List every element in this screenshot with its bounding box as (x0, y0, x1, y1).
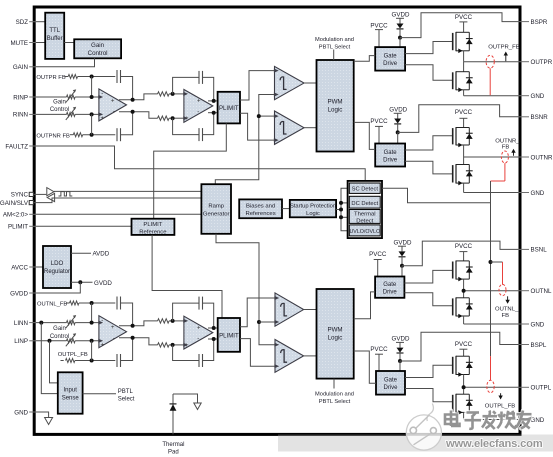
sense ellipse OUTPL (487, 380, 494, 392)
output wire (channel 1) (464, 61, 519, 63)
output wire (channel 3) (464, 290, 519, 292)
wire gate drive to low-side gate (channel 4) (405, 389, 453, 402)
svg-text:AVDD: AVDD (93, 251, 110, 258)
second stage feedback capacitor bottom (left) (173, 339, 214, 367)
pin OUTPR (519, 59, 553, 66)
svg-text:PBTL Select: PBTL Select (319, 44, 351, 50)
svg-text:OUTNL_: OUTNL_ (495, 306, 519, 312)
node RINP input (90, 75, 94, 79)
variable gain resistor RINN (67, 112, 76, 116)
ground rail wire (channel 3) (464, 323, 519, 325)
op-amp input stage left channel (99, 316, 127, 348)
PLIMIT block (left channel) (218, 318, 240, 352)
output sense bus wire (490, 181, 492, 356)
svg-text:www.elecfans.com: www.elecfans.com (445, 438, 543, 450)
svg-text:SYNC: SYNC (11, 192, 29, 199)
comparator 1 (right channel P) (275, 66, 305, 99)
bootstrap wire to BS pin (channel 1) (400, 13, 519, 38)
wire PLIMIT Reference to lower PLIMIT block (152, 235, 222, 318)
wire AVCC to LDO (36, 266, 43, 268)
wire low FET source to ground rail (channel 3) (463, 316, 465, 324)
GVDD diode channel 3 (394, 239, 412, 256)
GVDD diode channel 4 (392, 336, 410, 353)
pin MUTE (10, 40, 35, 47)
svg-text:-: - (113, 336, 115, 342)
Gate Drive block (channel 1) (375, 47, 405, 71)
label Gain Control (input attenuator bottom) (50, 326, 69, 340)
wire op-amp output bottom (left ch) (119, 338, 158, 345)
wire ramp to comparators 1-2 (215, 95, 274, 185)
wire op-amp output top (left ch) (119, 321, 158, 326)
wire gate drive to low-side gate (channel 2) (405, 161, 453, 174)
wire resistor to node (left bottom) (169, 344, 184, 346)
wire RINP to op-amp (75, 96, 99, 98)
svg-text:OUTPNR FB: OUTPNR FB (36, 133, 70, 139)
svg-text:SDZ: SDZ (16, 19, 29, 26)
pin GND (14, 409, 35, 416)
node output bottom (left ch) (131, 336, 135, 340)
high-side MOSFET (channel 4) (453, 356, 473, 377)
feedback arrow OUTPL_FB (500, 393, 502, 396)
watermark logo circle (406, 404, 441, 451)
wire PVCC to gate drive (channel 2) (378, 126, 380, 143)
svg-text:Gain: Gain (91, 42, 105, 49)
svg-text:Control: Control (88, 50, 108, 57)
svg-text:RINP: RINP (13, 94, 28, 101)
svg-text:UVLO/OVLO: UVLO/OVLO (349, 229, 380, 235)
wire to lower PLIMIT top (208, 327, 218, 329)
PLIMIT block (right channel) (218, 92, 240, 124)
sense wire OUTPL (red) (490, 356, 492, 380)
comparator 4 (left channel P) (275, 340, 304, 373)
Gate Drive block (channel 2) (375, 144, 405, 167)
svg-text:PLIMIT: PLIMIT (219, 105, 239, 112)
wire resistor to node (left top) (169, 320, 184, 322)
wire startup protection to detect bracket (336, 209, 341, 211)
svg-text:Startup Protection: Startup Protection (290, 203, 336, 209)
svg-text:Gate: Gate (384, 54, 398, 60)
svg-text:AM<2:0>: AM<2:0> (3, 212, 28, 219)
wire node to RINN (91, 114, 93, 134)
wire SC detect to output sense (382, 188, 491, 203)
svg-text:-: - (197, 336, 199, 342)
pin AVCC (11, 264, 35, 271)
wire GND pin to ground (36, 412, 49, 418)
svg-text:GVDD: GVDD (392, 12, 410, 19)
wire PVCC to gate drive (channel 4) (378, 354, 380, 371)
wire LINP to op-amp (75, 340, 99, 342)
wire PVCC to high FET drain (channel 1) (463, 22, 465, 32)
second stage feedback capacitor top (left) (173, 297, 214, 328)
ground rail wire (channel 4) (464, 419, 519, 421)
svg-text:GAIN: GAIN (13, 64, 28, 71)
svg-text:LDO: LDO (51, 260, 64, 267)
wire PVCC to high FET drain (channel 3) (463, 252, 465, 261)
wire op-amp output top (119, 94, 158, 100)
wire gate drive to low-side gate (channel 1) (405, 65, 453, 81)
svg-text:+: + (111, 98, 115, 104)
PVCC supply power FETs (channel 3) (455, 243, 473, 250)
wire PLIMIT to comparator 2 (240, 113, 275, 140)
svg-text:DC Detect: DC Detect (351, 201, 378, 207)
svg-text:Control: Control (50, 107, 69, 113)
PVCC supply power FETs (channel 1) (455, 14, 473, 21)
feedback resistor OUTNL FB (66, 301, 115, 305)
svg-text:OUTPL_FB: OUTPL_FB (58, 352, 88, 358)
svg-text:LINP: LINP (14, 338, 28, 345)
sync pulse waveform glyph (59, 192, 73, 196)
wire PVCC to gate drive (channel 1) (378, 30, 380, 47)
node bracket thermal (339, 215, 343, 219)
wire PVCC to high FET drain (channel 2) (463, 118, 465, 127)
detect bracket wire (341, 188, 348, 231)
PWM Logic block (right channel) (317, 60, 354, 152)
svg-text:+: + (111, 325, 115, 331)
sense wire OUTNL (red) (502, 262, 504, 285)
pin GND (519, 321, 545, 328)
substrate diode (thermal pad) (170, 404, 177, 411)
wire LDO to GVDD (71, 281, 93, 283)
PVCC T-bar (channel 2) (459, 117, 467, 119)
high-side MOSFET (channel 1) (453, 32, 473, 53)
pin GAIN (13, 64, 36, 71)
label Modulation and PBTL Select (top) (315, 37, 354, 60)
svg-text:PWM: PWM (327, 327, 342, 334)
svg-text:PLIMIT: PLIMIT (8, 224, 28, 231)
svg-text:OUTNL_FB: OUTNL_FB (37, 302, 67, 308)
wire comparator 1 output (304, 82, 317, 84)
Gate Drive block (channel 3) (375, 277, 404, 298)
bootstrap wire to BS pin (channel 3) (402, 241, 519, 266)
svg-text:GND: GND (531, 93, 545, 100)
PVCC supply power FETs (channel 2) (455, 109, 473, 116)
node GVDD (channel 1) (398, 36, 402, 40)
wire resistor to node (169, 93, 184, 95)
pin GND (519, 190, 545, 197)
svg-text:PVCC: PVCC (369, 251, 387, 258)
feedback resistor OUTPNR FB (70, 133, 115, 137)
second stage feedback capacitor top (173, 71, 214, 101)
svg-text:GVDD: GVDD (389, 107, 407, 114)
low-side MOSFET (channel 4) (453, 394, 473, 415)
pin SYNC (11, 192, 34, 199)
svg-text:-: - (101, 91, 103, 97)
low-side MOSFET (channel 3) (453, 297, 473, 318)
svg-text:RINN: RINN (13, 112, 28, 119)
LDO Regulator block (43, 246, 71, 288)
wire gate drive to low-side gate (channel 3) (404, 293, 452, 306)
svg-text:Ramp: Ramp (208, 204, 224, 210)
wire low FET source to ground rail (channel 4) (463, 412, 465, 419)
wire GVDD node to gate drive (channel 1) (399, 38, 401, 48)
wire sense bus tap (491, 261, 503, 263)
resistor to second stage (top) (158, 92, 170, 96)
pin OUTNR (519, 154, 553, 161)
svg-text:PVCC: PVCC (455, 14, 473, 21)
label OUTNR_FB (495, 138, 520, 150)
wire SYNC to ramp generator (54, 190, 201, 192)
wire to lower PLIMIT bottom (208, 338, 218, 340)
svg-text:-: - (197, 109, 199, 115)
protection detect outer box (348, 181, 382, 238)
wire FAULTZ to protection block (36, 146, 366, 181)
node second stage bottom (171, 116, 175, 120)
wire biases to startup protection (282, 208, 290, 210)
svg-text:Gate: Gate (384, 150, 398, 156)
low-side MOSFET (channel 1) (453, 71, 473, 92)
SC Detect block (349, 183, 380, 193)
svg-text:PVCC: PVCC (455, 341, 473, 348)
node GVDD (channel 3) (400, 264, 404, 268)
node LINN sense tap (39, 321, 43, 325)
PLIMIT Reference block (132, 219, 175, 236)
feedback capacitor (RINN path) (117, 112, 133, 141)
PVCC supply gate drive (channel 3) (369, 251, 387, 259)
node output top (131, 98, 135, 102)
svg-text:OUTPR_FB: OUTPR_FB (488, 45, 519, 51)
svg-text:GVDD: GVDD (10, 290, 28, 297)
comparator 2 (right channel N) (275, 111, 305, 144)
node LINP input (90, 359, 94, 363)
pin BSPR (519, 19, 548, 26)
PVCC T-bar (channel 4) (459, 348, 467, 350)
wire LINN (36, 322, 67, 324)
pin BSPL (519, 342, 547, 349)
wire LINP tap to input sense (50, 341, 58, 383)
PWM Logic block (left channel) (317, 289, 354, 379)
wire SYNC pad to buffer (33, 193, 46, 195)
pin BSNR (519, 114, 549, 121)
bootstrap wire to BS pin (channel 4) (400, 332, 519, 361)
wire lower PLIMIT to comparator 4 (240, 339, 275, 367)
sense wire OUTNR horizontal (red) (491, 180, 505, 182)
wire bracket to DC detect (341, 202, 348, 204)
PVCC T-bar (channel 3) (459, 251, 467, 253)
svg-text:GND: GND (531, 190, 545, 197)
Gate Drive block (channel 4) (376, 371, 405, 395)
sense ellipse OUTNL (499, 284, 506, 295)
Input Sense block (58, 372, 83, 413)
pin BSNL (519, 247, 548, 254)
label Modulation and PBTL Select (bottom) (315, 379, 354, 405)
wire node to LINN (91, 303, 93, 323)
svg-text:Pad: Pad (168, 450, 179, 456)
svg-text:BSPL: BSPL (531, 342, 547, 349)
svg-text:Reference: Reference (139, 230, 167, 236)
high-side MOSFET (channel 2) (453, 127, 473, 147)
svg-text:Drive: Drive (383, 157, 398, 163)
DC Detect block (349, 196, 380, 208)
thermal pad wire (172, 394, 174, 434)
GVDD diode channel 2 (389, 107, 407, 124)
resistor to second stage (left top) (158, 319, 170, 323)
op-amp second stage right channel (184, 90, 213, 123)
feedback resistor OUTPL FB (61, 359, 116, 363)
wire to PLIMIT bottom (208, 112, 218, 114)
svg-text:GAIN/SLV: GAIN/SLV (0, 200, 29, 207)
feedback capacitor (LINP path) (117, 338, 133, 367)
pin GAIN/SLV (0, 200, 33, 207)
wire SDZ to TTL buffer (36, 21, 46, 23)
GVDD diode channel 1 (392, 12, 410, 29)
SYNC buffer pair (47, 188, 55, 202)
pin FAULTZ (5, 143, 35, 150)
op-amp second stage left channel (184, 316, 213, 349)
svg-text:OUTNR: OUTNR (531, 154, 553, 161)
svg-text:Drive: Drive (383, 385, 398, 391)
pin PLIMIT (8, 224, 36, 231)
svg-text:BSNL: BSNL (531, 247, 548, 254)
wire GVDD node to gate drive (channel 3) (401, 266, 403, 277)
wire low FET source to ground rail (channel 2) (463, 183, 465, 192)
svg-text:BSNR: BSNR (531, 114, 549, 121)
wire ramp to comparator 2 (259, 115, 275, 117)
input arrows comparators and op-amps (98, 69, 279, 369)
svg-text:Modulation and: Modulation and (315, 37, 354, 43)
wire thermal pad branch (173, 394, 198, 403)
svg-text:PVCC: PVCC (455, 243, 473, 250)
wire GVDD node to gate drive (channel 2) (397, 132, 399, 143)
svg-text:MUTE: MUTE (10, 40, 28, 47)
wire op-amp output bottom (119, 112, 158, 118)
wire GVDD diode to node (channel 4) (399, 353, 401, 361)
wire GVDD pin to node (36, 282, 81, 293)
svg-text:+: + (197, 99, 201, 105)
node LINN input (90, 301, 94, 305)
ground rail wire (channel 1) (464, 95, 519, 97)
wire low FET drain to output (channel 2) (463, 157, 465, 165)
wire GAIN/SLV to ramp generator (33, 198, 201, 203)
feedback arrow OUTNR_FB (513, 152, 515, 156)
high-side MOSFET (channel 3) (453, 261, 473, 282)
wire MUTE to TTL buffer (36, 42, 46, 44)
wire GVDD diode to node (channel 1) (399, 29, 401, 38)
pin LINN (14, 320, 36, 327)
wire input sense to PBTL select (83, 393, 116, 395)
wire low FET drain to output (channel 1) (463, 62, 465, 72)
wire RINN to op-amp (75, 113, 99, 115)
wire AM<2:0> to ramp generator (36, 213, 202, 215)
node output junction OUTNL (462, 289, 466, 293)
wire low FET drain to output (channel 4) (463, 387, 465, 394)
wire ramp to comparator 3 (259, 321, 275, 323)
wire RINN (36, 113, 67, 115)
svg-text:GND: GND (531, 321, 545, 328)
ground symbol (signal ground) (45, 418, 53, 425)
svg-text:Drive: Drive (383, 61, 398, 67)
node GVDD (channel 4) (398, 359, 402, 363)
node ramp comparator 3 (257, 320, 261, 324)
wire bracket to thermal detect (341, 216, 348, 218)
svg-text:PWM: PWM (327, 98, 342, 105)
svg-text:AVCC: AVCC (11, 264, 28, 271)
label PBTL Select (118, 389, 135, 403)
pin RINP (13, 94, 35, 101)
svg-text:SC Detect: SC Detect (352, 186, 379, 192)
wire comparator 2 output (304, 127, 317, 129)
TTL Buffer block (45, 13, 64, 59)
output wire (channel 4) (464, 386, 519, 388)
svg-text:GVDD: GVDD (392, 336, 410, 343)
wire high FET source to output (channel 4) (463, 375, 465, 388)
svg-text:GVDD: GVDD (394, 239, 412, 246)
svg-text:LINN: LINN (14, 320, 28, 327)
wire TTL buffer to Gain Control (64, 42, 74, 44)
svg-text:Control: Control (50, 334, 69, 340)
Ramp Generator block (201, 184, 231, 234)
svg-text:GVDD: GVDD (94, 280, 112, 287)
svg-text:GND: GND (14, 409, 28, 416)
wire high FET source to output (channel 1) (463, 51, 465, 62)
svg-text:+: + (101, 343, 105, 349)
wire LINP (36, 340, 67, 342)
svg-text:Thermal: Thermal (354, 211, 376, 217)
node second stage top (left) (171, 319, 175, 323)
feedback arrow OUTPR_FB (505, 55, 507, 62)
resistor to second stage (left bottom) (158, 343, 170, 347)
svg-text:Select: Select (118, 396, 135, 402)
wire lower PLIMIT to comparator 3 (240, 298, 275, 327)
svg-text:PVCC: PVCC (370, 22, 388, 29)
low-side MOSFET (channel 2) (453, 164, 473, 185)
svg-text:Detect: Detect (356, 218, 373, 224)
node second stage bottom (left) (171, 343, 175, 347)
label OUTNL_FB (495, 306, 519, 319)
wire PLIMIT to PLIMIT Reference (154, 123, 227, 218)
wire PWM to gate drive (channel 4) (354, 351, 376, 383)
resistor to second stage (bottom) (158, 116, 170, 120)
label Gain Control (input attenuator) (50, 100, 69, 114)
wire gate drive to high-side gate (channel 3) (404, 270, 452, 283)
feedback capacitor (LINN path) (117, 297, 133, 326)
wire LINN tap to input sense (41, 323, 58, 394)
svg-text:Modulation and: Modulation and (315, 391, 354, 397)
svg-text:GND: GND (531, 417, 545, 424)
PVCC supply gate drive (channel 1) (370, 22, 388, 29)
svg-text:BSPR: BSPR (531, 19, 548, 26)
sense ellipse OUTPR (486, 55, 494, 68)
svg-text:Gain: Gain (53, 100, 66, 106)
wire node to LINP (91, 341, 93, 361)
wire node to RINP (91, 77, 93, 98)
PVCC supply power FETs (channel 4) (455, 341, 473, 348)
svg-text:Gate: Gate (383, 282, 397, 288)
svg-text:OUTPL: OUTPL (531, 385, 552, 392)
svg-text:OUTPR: OUTPR (531, 59, 553, 66)
pin LINP (14, 338, 35, 345)
variable gain resistor RINP (67, 95, 76, 99)
sense wire OUTPR (red) (489, 68, 491, 95)
wire high FET source to output (channel 2) (463, 145, 465, 157)
svg-text:OUTNR_: OUTNR_ (495, 138, 520, 144)
sense ellipse OUTNR (501, 151, 508, 163)
wire PWM to gate drive (channel 3) (354, 292, 375, 319)
label Thermal Pad (162, 442, 184, 456)
Thermal Detect block (349, 210, 380, 225)
svg-text:FB: FB (502, 313, 510, 319)
node LINP sense tap (48, 339, 52, 343)
svg-text:Sense: Sense (62, 396, 80, 402)
wire PVCC to gate drive (channel 3) (377, 260, 379, 277)
variable gain resistor LINN (67, 321, 76, 325)
wire PLIMIT pin to PLIMIT Reference (36, 225, 132, 227)
svg-text:Gate: Gate (384, 378, 398, 384)
svg-text:Thermal: Thermal (162, 442, 184, 448)
wire to PLIMIT top (208, 100, 218, 102)
wire PWM to gate drive (channel 2) (354, 122, 376, 149)
wire PVCC to high FET drain (channel 4) (463, 349, 465, 356)
watermark band (278, 435, 553, 452)
